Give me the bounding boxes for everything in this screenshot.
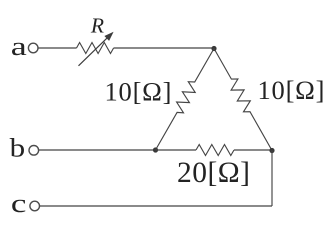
resistor R (variable) zigzag	[77, 43, 114, 54]
svg-text:20[Ω]: 20[Ω]	[177, 157, 250, 189]
arrow through variable resistor R	[79, 32, 114, 66]
wire c to right vertical	[40, 205, 272, 207]
right 10 ohm resistor (top node to node c-right)	[214, 49, 272, 151]
terminal circle c	[30, 201, 40, 211]
svg-text:10[Ω]: 10[Ω]	[105, 77, 172, 107]
svg-text:a: a	[11, 31, 27, 61]
wire left node to 20 ohm resistor	[156, 149, 197, 151]
20 ohm resistor zigzag	[196, 145, 234, 156]
svg-text:R: R	[90, 13, 104, 37]
svg-text:b: b	[10, 133, 26, 163]
top node junction dot	[211, 46, 216, 51]
right bottom node junction dot	[269, 148, 274, 153]
wire b to left node	[39, 149, 156, 151]
terminal circle a	[28, 43, 38, 53]
svg-text:10[Ω]: 10[Ω]	[258, 75, 325, 105]
left 10 ohm resistor (top node to node b)	[156, 49, 215, 151]
left bottom node junction dot	[153, 147, 158, 152]
terminal circle b	[29, 146, 39, 156]
wire R to top node	[114, 47, 214, 49]
svg-text:c: c	[11, 188, 27, 218]
wire a to resistor R	[38, 47, 76, 49]
wire 20 ohm resistor to right node	[234, 149, 272, 151]
wire right node down to c rail	[271, 151, 273, 207]
